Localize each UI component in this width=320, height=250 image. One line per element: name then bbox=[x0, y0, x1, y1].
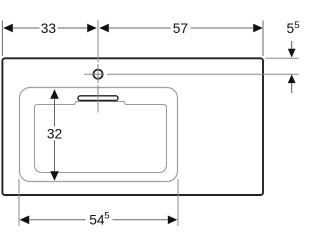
svg-text:57: 57 bbox=[173, 21, 188, 36]
svg-text:5: 5 bbox=[104, 211, 109, 222]
svg-text:33: 33 bbox=[41, 21, 57, 36]
svg-text:54: 54 bbox=[89, 212, 105, 227]
svg-text:5: 5 bbox=[294, 20, 299, 31]
svg-text:32: 32 bbox=[47, 126, 62, 141]
